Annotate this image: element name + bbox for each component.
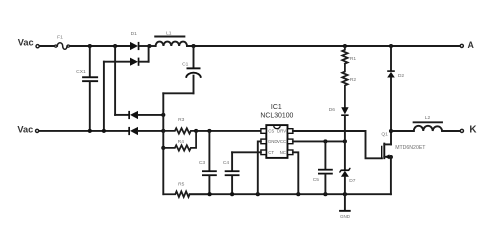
svg-text:A: A [468, 40, 475, 50]
wire NC pin to rail [293, 152, 298, 194]
wire D3 anode riser [103, 62, 105, 131]
svg-text:R2: R2 [350, 77, 357, 83]
capacitor C1 [163, 46, 200, 93]
svg-text:NCL30100: NCL30100 [260, 112, 293, 119]
capacitor C4 [223, 152, 240, 194]
pin 1 CS box [261, 129, 266, 134]
svg-text:R4: R4 [178, 139, 185, 145]
junction dot R1 top [343, 44, 347, 48]
wire CT pin to C4 [232, 151, 261, 153]
junction dot minus node [161, 129, 165, 133]
junction dot C3 top [207, 129, 211, 133]
capacitor CX1 [76, 46, 98, 131]
svg-text:C3: C3 [199, 160, 206, 166]
svg-text:VCC: VCC [277, 139, 286, 144]
svg-text:F1: F1 [57, 34, 63, 40]
pin labels [268, 129, 286, 155]
junction dot D-branch top [113, 44, 117, 48]
wire Vac-top to fuse [40, 45, 55, 47]
diode D6 (points down) [329, 107, 349, 142]
capacitor C5 [313, 141, 333, 194]
wire bottom AC line [39, 130, 128, 132]
junction dot C5 top [323, 139, 327, 143]
wire L2 to K [442, 130, 460, 132]
svg-text:C5: C5 [313, 177, 320, 183]
svg-text:IC1: IC1 [271, 104, 282, 111]
svg-text:C1: C1 [182, 61, 189, 67]
resistor R5 [163, 182, 209, 197]
svg-text:CT: CT [268, 150, 274, 155]
junction dot VCC node [343, 139, 347, 143]
svg-text:DRV: DRV [277, 129, 286, 134]
svg-text:L2: L2 [425, 115, 431, 121]
svg-text:Q1: Q1 [381, 132, 388, 138]
diode D5 (bridge, points left) [128, 127, 163, 135]
svg-text:NC: NC [280, 150, 286, 155]
gate bar [381, 146, 383, 158]
svg-text:R5: R5 [178, 182, 185, 188]
resistor R3 [163, 117, 196, 133]
svg-text:MTD6N20ET: MTD6N20ET [395, 145, 426, 151]
source down wire [390, 157, 392, 194]
wire VCC line [293, 140, 345, 142]
inductor L2 [414, 115, 443, 131]
op-amp/IC U1 NCL30100 body [260, 104, 293, 158]
diode D2 (points up) [387, 46, 404, 144]
wire DRV to gate [293, 131, 382, 158]
wire fuse to D1 [70, 45, 130, 47]
ground [339, 194, 351, 219]
junction dot CX1 top [88, 44, 92, 48]
junction dot R3/R4 node [194, 129, 198, 133]
junction dot D2 top [389, 44, 393, 48]
drain stub [384, 143, 391, 145]
source junction dot [389, 155, 393, 159]
pin 2 GND box [261, 139, 266, 144]
svg-text:D6: D6 [329, 107, 336, 113]
diode D4 (bridge, points left) [115, 111, 163, 119]
svg-text:D7: D7 [349, 178, 356, 184]
channel bar [383, 144, 385, 159]
pin 6 DRV box [288, 129, 293, 134]
junction dot D3 riser [102, 129, 106, 133]
pin 5 VCC box [288, 139, 293, 144]
junction dot L1 left node [147, 44, 151, 48]
pin 3 CT box [261, 150, 266, 155]
svg-text:D1: D1 [131, 31, 138, 37]
wire CS line to IC [196, 130, 261, 132]
svg-text:Vac: Vac [17, 125, 33, 135]
junction dots bottom rail [208, 192, 212, 196]
svg-text:R1: R1 [350, 56, 357, 62]
resistor R1 [342, 46, 356, 64]
svg-text:CS: CS [268, 129, 274, 134]
pin 4 NC box [288, 150, 293, 155]
svg-text:L1: L1 [166, 30, 172, 36]
terminal Vac top [18, 37, 39, 47]
junction dot K node [389, 129, 393, 133]
svg-text:Vac: Vac [18, 37, 34, 47]
svg-text:GND: GND [340, 214, 351, 219]
fuse F1 [55, 34, 70, 49]
wire K row [391, 130, 414, 132]
wire top rail to A [187, 45, 460, 47]
junction dot CX1 bottom [88, 129, 92, 133]
svg-text:K: K [469, 125, 477, 136]
svg-text:C4: C4 [223, 160, 230, 166]
resistor R2 [342, 64, 356, 107]
wire top junction down [114, 46, 116, 115]
junction dot C1 top [191, 44, 195, 48]
terminal A [460, 40, 474, 50]
zener diode D7 (points up) [340, 141, 356, 194]
wire GND pin to rail [258, 141, 261, 194]
junction dot [161, 113, 165, 117]
diode D3 (bridge upper-middle, points right) [104, 46, 149, 66]
svg-text:D2: D2 [398, 73, 405, 79]
diode D1 [130, 31, 149, 50]
transistor Q1 [381, 132, 426, 195]
resistor R4 [161, 131, 196, 151]
inductor L1 [149, 30, 187, 46]
svg-text:CX1: CX1 [76, 69, 86, 75]
terminal K [460, 125, 477, 136]
capacitor C3 [199, 131, 217, 194]
svg-text:R3: R3 [178, 117, 185, 123]
wire left return vertical [162, 93, 164, 194]
source stub with arrow [384, 156, 391, 158]
wire bottom rail [190, 193, 391, 195]
terminal Vac bottom [17, 125, 38, 135]
